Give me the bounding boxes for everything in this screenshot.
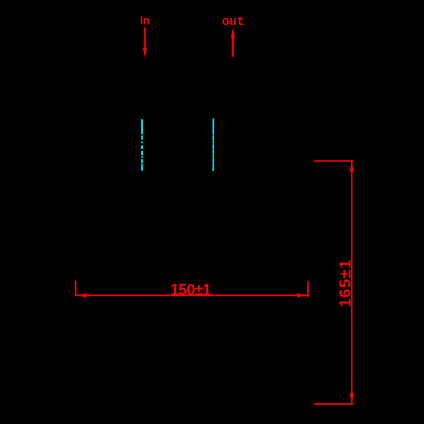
dimension 150±1 : left extension line: [75, 281, 77, 296]
dimension 150±1 : dimension line: [76, 294, 307, 296]
label "in": [141, 15, 150, 28]
dimension 150±1 : right extension line: [307, 281, 309, 297]
leader arrow "out" (points up): [231, 28, 235, 57]
dimension 150±1 : left arrowhead: [76, 293, 86, 297]
dimension 150±1 : right arrowhead: [297, 293, 307, 297]
leader arrow "in" (points down): [143, 28, 147, 58]
svg-text:n: n: [143, 15, 150, 28]
centerline left (cyan dash-dot): [141, 119, 143, 171]
dimension 165±1 : bottom extension line: [314, 403, 354, 405]
svg-text:150±1: 150±1: [170, 282, 211, 299]
centerline right (cyan dash-dot): [212, 118, 214, 171]
svg-text:out: out: [222, 15, 245, 29]
dimension 165±1 : dimension line: [351, 161, 353, 403]
dimension 165±1 : top extension line: [314, 160, 354, 162]
dimension 165±1 : bottom arrowhead: [350, 393, 354, 403]
dimension 165±1 : top arrowhead: [350, 161, 354, 171]
svg-text:165±1: 165±1: [337, 259, 354, 307]
